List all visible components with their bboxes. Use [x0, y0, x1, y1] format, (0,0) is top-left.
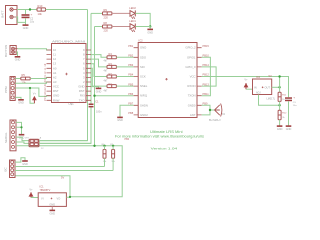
- svg-text:IC1: IC1: [40, 184, 45, 188]
- svg-text:GND: GND: [117, 119, 123, 122]
- svg-text:ARDUINO_MINI: ARDUINO_MINI: [52, 40, 85, 44]
- wire ppm pin2 to arduino A3: [15, 82, 51, 83]
- svg-text:5V: 5V: [269, 74, 272, 78]
- connector PPM: [10, 77, 15, 101]
- node arduino origin cross: [65, 73, 67, 75]
- svg-text:IN: IN: [254, 85, 257, 89]
- wire v1 vertical down to serial pin2: [39, 10, 88, 141]
- node net labels IC2 right: [203, 44, 210, 106]
- svg-text:R11: R11: [282, 94, 287, 96]
- svg-text:A3: A3: [53, 80, 57, 84]
- svg-text:R9: R9: [104, 8, 108, 12]
- node divider mid junction: [278, 104, 280, 106]
- svg-text:VO: VO: [57, 196, 61, 200]
- wire i2c pin1 to ground: [15, 158, 25, 162]
- capacitor C3: [285, 97, 292, 101]
- svg-text:GND: GND: [22, 163, 28, 166]
- node rail junction: [278, 75, 280, 77]
- wire IC1 VO out: [66, 196, 70, 199]
- svg-text:U$1: U$1: [69, 102, 75, 106]
- svg-text:GND: GND: [49, 202, 55, 206]
- node IC4 origin cross: [262, 87, 264, 89]
- wire button pin2 to ground: [16, 52, 17, 56]
- node net labels IC2 left: [128, 44, 133, 115]
- svg-text:10u: 10u: [293, 105, 297, 107]
- svg-text:SHDN: SHDN: [140, 103, 148, 107]
- wire LED row1 to R9: [91, 12, 103, 14]
- svg-text:PB2: PB2: [128, 54, 133, 58]
- svg-text:12: 12: [53, 57, 57, 61]
- svg-text:220: 220: [104, 29, 109, 33]
- svg-text:For more information visit www: For more information visit www.itluxembo…: [115, 134, 204, 138]
- voltage regulator IC4 box: [253, 79, 272, 95]
- svg-text:3k: 3k: [282, 117, 285, 119]
- wire i2c pin2 to R6 bottom: [15, 166, 105, 168]
- node v3 nirq junction: [93, 95, 95, 97]
- ground SHDN: [117, 117, 123, 122]
- svg-text:A0: A0: [53, 66, 57, 70]
- wire NIRQ from v3: [95, 95, 134, 97]
- svg-text:220: 220: [104, 16, 109, 20]
- svg-text:IC4: IC4: [256, 76, 261, 79]
- wire ppm V+ branch: [30, 88, 34, 103]
- antenna X2 SMA: [215, 104, 222, 117]
- resistor R12: [278, 110, 281, 119]
- connector I2C: [10, 160, 16, 178]
- wire V+ to IC4 IN: [246, 88, 253, 90]
- svg-text:BUTTON: BUTTON: [4, 45, 8, 57]
- wire R1 to IC2 NSEL: [116, 85, 133, 87]
- resistor R5: [21, 77, 30, 80]
- svg-text:10u: 10u: [30, 21, 35, 24]
- node ppm branch junction: [29, 87, 31, 89]
- svg-text:GND: GND: [286, 128, 292, 131]
- wire jumper to 5V rail: [39, 142, 91, 144]
- label IC2 right pin names: [185, 46, 196, 117]
- ground arduino right: [96, 88, 102, 93]
- wire divider mid lead: [279, 101, 281, 110]
- op-amp U$1 arduino mini box: [47, 44, 92, 103]
- jumper JP1: [29, 139, 39, 147]
- svg-text:4k7: 4k7: [104, 79, 109, 82]
- wire R2 to IC2 SCK: [116, 76, 133, 78]
- supply V+ ppm: [32, 92, 37, 104]
- svg-text:A: A: [40, 137, 42, 140]
- svg-text:GND: GND: [50, 212, 56, 215]
- wire GPIO1 to TXON loop: [202, 57, 211, 95]
- wire R9 to LED2: [112, 12, 130, 14]
- svg-text:PB3: PB3: [128, 63, 133, 67]
- wire LED row2 to R8: [95, 26, 103, 28]
- wire R3 to IC2 SDI: [116, 66, 133, 68]
- wire jumper to IC2 bottom riser: [39, 140, 88, 142]
- svg-text:C3: C3: [293, 102, 297, 104]
- wire V+ to IC1 VI: [31, 197, 38, 199]
- svg-text:GND: GND: [277, 128, 283, 131]
- svg-text:10k: 10k: [22, 81, 27, 85]
- svg-text:10: 10: [53, 48, 57, 52]
- svg-text:GND: GND: [23, 27, 29, 30]
- svg-text:VCC A3 A2 A1 A0 13 12 11 10: VCC A3 A2 A1 A0 13 12 11 10: [44, 63, 47, 101]
- wire R4 to IC2 SDO: [116, 56, 133, 58]
- svg-text:13: 13: [53, 62, 57, 66]
- svg-text:+: +: [293, 96, 295, 100]
- svg-text:+: +: [31, 13, 33, 17]
- svg-text:12: 12: [41, 148, 44, 150]
- wire cap bottom lead: [25, 18, 27, 24]
- ground divider: [277, 126, 283, 131]
- wire LED2 cathode down to LED1 node: [135, 13, 150, 26]
- capacitor C1: [89, 104, 94, 108]
- wire SHDN to ground: [120, 105, 134, 117]
- svg-text:GND: GND: [147, 31, 153, 34]
- wire R7 bottom lead: [112, 158, 114, 170]
- svg-text:RXON: RXON: [187, 84, 195, 88]
- ground serial: [19, 135, 25, 140]
- svg-text:7: 7: [83, 57, 85, 61]
- svg-text:A1: A1: [53, 71, 57, 75]
- wire button pin1 to arduino pin10: [18, 49, 52, 50]
- wire battery pin1 to junction: [17, 9, 37, 11]
- svg-text:GND: GND: [78, 85, 84, 89]
- wire ppm pin3 to arduino gnd row: [15, 88, 51, 96]
- svg-text:R12: R12: [282, 113, 287, 115]
- svg-text:GND: GND: [96, 90, 102, 93]
- connector S2 button: [10, 46, 18, 55]
- voltage regulator IC1 box: [38, 193, 66, 207]
- ground C3: [286, 126, 292, 131]
- ground ppm: [18, 100, 24, 105]
- resistor R2: [107, 75, 116, 78]
- svg-text:LED1: LED1: [129, 19, 136, 23]
- svg-text:TXON: TXON: [188, 94, 196, 98]
- svg-text:11: 11: [53, 53, 56, 57]
- wire LED1 cathode to ground: [135, 27, 150, 29]
- wire arduino pin5 jog to R1: [91, 68, 107, 86]
- svg-text:PB8: PB8: [128, 111, 133, 115]
- wire R8 to LED1: [112, 26, 130, 28]
- wire v2 LED row1 riser down to serial pin3: [39, 13, 91, 143]
- svg-text:NIRQ: NIRQ: [140, 94, 148, 98]
- svg-text:LED2: LED2: [129, 6, 136, 10]
- wire R12 to ground: [279, 120, 281, 126]
- wire battery pin2 to cap/gnd: [16, 17, 26, 22]
- svg-text:PB6: PB6: [128, 92, 133, 96]
- resistor R8: [103, 25, 112, 28]
- wire R5 to arduino A2: [30, 77, 51, 78]
- wire v3 LED row2 riser down to 5V rail: [94, 27, 96, 146]
- IC U$2 RFM radio box: [134, 43, 202, 118]
- ground battery cap: [23, 25, 29, 30]
- svg-text:PB5: PB5: [128, 82, 133, 86]
- svg-text:VCC: VCC: [53, 85, 59, 89]
- wire IC1 gnd stem: [51, 206, 53, 210]
- wire R7 top lead: [112, 146, 114, 150]
- wire arduino pin7 jog to R3: [91, 59, 107, 67]
- wire divider riser from VCC rail: [279, 77, 281, 93]
- resistor R10: [37, 8, 46, 11]
- svg-text:I2C: I2C: [4, 166, 8, 172]
- svg-text:SCK: SCK: [140, 75, 146, 79]
- svg-text:RST: RST: [53, 89, 59, 93]
- svg-text:GPIO1: GPIO1: [187, 55, 196, 59]
- resistor R6: [103, 150, 106, 159]
- svg-text:9: 9: [83, 48, 85, 52]
- wire VCC rail to cap: [202, 77, 289, 98]
- svg-text:RXI: RXI: [80, 94, 85, 98]
- svg-text:R1: R1: [109, 82, 113, 86]
- svg-text:4k7: 4k7: [104, 89, 109, 92]
- resistor R9: [103, 12, 112, 15]
- connector SERIAL: [10, 120, 16, 151]
- ground IC1: [50, 210, 56, 215]
- svg-text:LM317L: LM317L: [267, 97, 276, 100]
- svg-text:IC2: IC2: [139, 39, 144, 43]
- svg-text:4k7: 4k7: [104, 60, 109, 63]
- wire serial pin5 to jumper: [16, 142, 29, 143]
- wire cap top lead: [25, 10, 27, 15]
- wire R6 top lead: [104, 146, 106, 150]
- svg-text:SERIAL: SERIAL: [4, 132, 8, 143]
- resistor R4: [107, 56, 116, 59]
- wire serial pin1 to ground: [16, 122, 22, 134]
- resistor R11: [278, 92, 281, 101]
- svg-text:5V: 5V: [61, 176, 64, 180]
- svg-text:GND0: GND0: [188, 103, 196, 107]
- resistor R7: [112, 150, 115, 159]
- wire R6 bottom lead: [104, 158, 106, 166]
- svg-text:2: 2: [83, 80, 85, 84]
- ground i2c: [22, 161, 28, 166]
- node 5V junctions: [93, 145, 95, 147]
- svg-text:BATT: BATT: [1, 10, 5, 18]
- svg-text:RAW: RAW: [53, 98, 60, 102]
- svg-text:R3: R3: [109, 62, 113, 66]
- wire C3 to ground: [288, 101, 290, 126]
- wire ppm pin1 to R5: [15, 78, 21, 80]
- svg-text:V+: V+: [29, 188, 33, 192]
- svg-text:PPM: PPM: [4, 86, 8, 93]
- wire top rail to v1: [46, 9, 88, 11]
- LED LED1: [130, 24, 135, 32]
- svg-text:OUT: OUT: [265, 85, 271, 89]
- svg-text:NSEL: NSEL: [140, 84, 148, 88]
- svg-text:R2: R2: [109, 72, 113, 76]
- wire arduino pin8 jog to R4: [91, 55, 107, 58]
- wire GND0 dogleg to antenna: [202, 105, 215, 110]
- wire ANT dogleg to antenna: [202, 110, 210, 115]
- supply V+ IC1: [29, 188, 34, 198]
- svg-text:GND: GND: [18, 101, 24, 104]
- svg-text:GND: GND: [140, 46, 146, 50]
- label arduino right pin names: [78, 48, 85, 102]
- wire IC4 OUT to divider: [272, 86, 280, 88]
- capacitor C2: [22, 14, 30, 18]
- node LED cathodes: [149, 25, 151, 27]
- svg-text:GPIO_0: GPIO_0: [185, 65, 196, 69]
- wire arduino right GND: [91, 87, 99, 88]
- svg-text:R4: R4: [109, 52, 113, 56]
- svg-text:6: 6: [83, 62, 85, 66]
- svg-text:PB4: PB4: [128, 73, 133, 77]
- svg-text:X2: X2: [222, 113, 226, 116]
- node junction bat: [29, 8, 31, 10]
- node antenna junction: [209, 109, 211, 111]
- svg-text:SDI: SDI: [140, 65, 145, 69]
- svg-text:BU-SMA-V: BU-SMA-V: [209, 119, 221, 122]
- resistor R1: [107, 85, 116, 88]
- wire i2c pin3 to R7 bottom: [15, 170, 113, 172]
- resistor R3: [107, 65, 116, 68]
- label arduino left pin names: [53, 48, 60, 102]
- LED LED2: [130, 10, 135, 18]
- svg-text:3: 3: [83, 75, 85, 79]
- svg-text:PB15: PB15: [203, 44, 210, 48]
- svg-text:RST: RST: [79, 89, 85, 93]
- svg-text:GND: GND: [53, 94, 59, 98]
- svg-text:Version 1.04: Version 1.04: [151, 146, 178, 150]
- svg-text:GND2: GND2: [140, 113, 148, 117]
- svg-text:VI: VI: [41, 196, 44, 200]
- svg-text:8: 8: [83, 53, 85, 57]
- svg-text:VCC: VCC: [190, 75, 196, 79]
- svg-text:4: 4: [83, 71, 85, 75]
- svg-text:10k: 10k: [38, 12, 43, 16]
- svg-text:C1: C1: [95, 101, 99, 104]
- svg-text:V+: V+: [33, 92, 37, 96]
- ground LEDs: [147, 29, 153, 34]
- svg-text:100n: 100n: [96, 111, 102, 114]
- svg-text:ANT: ANT: [190, 113, 196, 117]
- svg-text:A2: A2: [53, 75, 57, 79]
- svg-text:PB1: PB1: [128, 44, 133, 48]
- wire GPIO_0 to RXON loop: [202, 67, 217, 86]
- svg-text:ADJ: ADJ: [256, 92, 261, 95]
- svg-text:5: 5: [83, 66, 85, 70]
- svg-text:78M05TV: 78M05TV: [40, 189, 51, 192]
- label IC2 left pin names: [140, 46, 148, 117]
- svg-text:TXO: TXO: [79, 98, 86, 102]
- node IC1 origin cross: [51, 198, 53, 200]
- wire IC4 ADJ to divider mid: [259, 95, 280, 106]
- node IC2 origin cross: [165, 78, 167, 80]
- svg-text:SDO: SDO: [140, 55, 147, 59]
- svg-text:GND: GND: [15, 59, 21, 62]
- svg-text:V+: V+: [244, 77, 248, 81]
- svg-text:GPIO_2: GPIO_2: [185, 46, 196, 50]
- node out junction: [278, 86, 280, 88]
- connector X1 (battery): [6, 6, 18, 25]
- wire ppm pin5 to ground: [15, 97, 21, 99]
- wire arduino pin6 jog to R2: [91, 64, 107, 77]
- svg-text:4k7: 4k7: [104, 70, 109, 73]
- ground button: [15, 57, 21, 62]
- wire serial pin4 to jumper: [16, 137, 29, 141]
- svg-text:R10: R10: [38, 4, 43, 8]
- wire serial pin6 stub: [15, 146, 122, 197]
- supply V+ regulator right: [244, 77, 249, 89]
- svg-text:R5: R5: [22, 73, 26, 77]
- svg-text:R8: R8: [104, 21, 108, 25]
